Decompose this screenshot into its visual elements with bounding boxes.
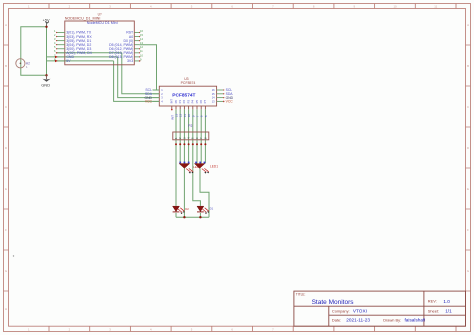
svg-text:B: B (5, 64, 7, 68)
U3 left pin names (144, 88, 152, 103)
svg-text:G: G (467, 269, 469, 273)
svg-text:H: H (5, 307, 7, 311)
NodeMCU GND/5V pin junction arrows (55, 56, 58, 59)
wire RGB LED2 cathode jog right down to rail (200, 168, 209, 217)
frame ticks bottom (49, 326, 456, 331)
svg-text:P7: P7 (203, 100, 207, 104)
svg-text:C: C (5, 105, 7, 109)
svg-text:VCC: VCC (145, 100, 153, 104)
svg-text:G: G (5, 269, 7, 273)
U3 INT pin tip dot (171, 109, 173, 111)
wire vertical bus +5V junction down to GND junction (46, 27, 48, 76)
svg-text:A: A (5, 23, 7, 27)
svg-text:PCF8574T: PCF8574T (172, 93, 195, 99)
wire drop to U3 VCC (114, 61, 160, 102)
svg-text:REV:: REV: (428, 299, 437, 304)
MCU module U? NodeMCU D1 Mini (65, 12, 135, 65)
P2 pin marks inside (rotated numbers) (174, 137, 207, 139)
NodeMCU right pin numbers 9-16 (140, 29, 143, 61)
svg-text:P2: P2 (188, 124, 192, 128)
wire drop to U3 GND (118, 57, 160, 98)
wires (green nets) (21, 23, 209, 218)
wire NodeMCU D5 to U3 SCL (139, 45, 156, 90)
wire +5V flag stub down to junction (46, 23, 48, 27)
U3 left pin numbers (161, 88, 163, 103)
NodeMCU pin tip dots (56, 32, 141, 62)
RGB LED1 (upper right) (194, 162, 218, 174)
svg-text:NodeMCU D1 Mini: NodeMCU D1 Mini (87, 21, 118, 25)
junction rail left (183, 216, 185, 218)
svg-text:VTOXI: VTOXI (353, 309, 367, 314)
U3 left pin stubs (153, 90, 160, 101)
wire U3 P4 jog down to lower LED D1 (193, 109, 201, 206)
svg-text:E: E (5, 187, 7, 191)
LED D2 (lower left) (173, 206, 190, 214)
wire NodeMCU GND pin row from bus across symbol to SDA drop (47, 56, 118, 58)
svg-text:LED1: LED1 (210, 165, 218, 169)
NodeMCU left pin names (66, 31, 92, 63)
junction at +5V corner (45, 26, 47, 28)
svg-text:GND: GND (41, 82, 50, 87)
svg-text:1.0: 1.0 (443, 299, 450, 304)
connector H2 (16, 59, 30, 69)
svg-text:5: 5 (204, 115, 208, 117)
svg-text:D: D (5, 146, 7, 150)
svg-text:3V3: 3V3 (127, 59, 133, 63)
svg-text:Sheet:: Sheet: (428, 308, 439, 313)
wire RGB LED1 cathode down to rail (183, 168, 185, 217)
junction at GND corner (45, 74, 47, 76)
svg-text:Date:: Date: (332, 317, 341, 322)
RGB LED (upper left) (179, 162, 201, 174)
U3 right pin stubs (217, 90, 224, 101)
ground (41, 75, 50, 87)
wire U3 P7 to RGB LED2 (204, 109, 206, 163)
IC U3 PCF8574 (159, 77, 216, 106)
wire U3 P3 to RGB LED (188, 109, 190, 163)
frame ticks left (4, 45, 9, 291)
U3 bottom pin names inside (rotated) (170, 99, 208, 104)
wire U3 P2 to RGB LED (183, 109, 185, 163)
svg-text:A: A (467, 23, 469, 27)
U3 bottom pin numbers below (rotated) (170, 113, 208, 120)
svg-text:+5V: +5V (43, 17, 50, 22)
wire NodeMCU D4 pin row across symbol to SDA drop (57, 52, 122, 54)
svg-text:B: B (467, 64, 469, 68)
frame ticks top (49, 4, 456, 9)
wire U3 P1 to RGB LED (179, 109, 181, 163)
U3 right pin numbers (212, 88, 215, 103)
svg-text:Drawn By:: Drawn By: (383, 317, 401, 322)
svg-text:10: 10 (393, 5, 397, 9)
wire U3 P6 to RGB LED2 (200, 109, 202, 163)
svg-text:faisalshafi: faisalshafi (405, 318, 426, 323)
svg-text:F: F (5, 228, 7, 232)
svg-text:E: E (467, 187, 469, 191)
svg-text:D: D (467, 146, 469, 150)
NodeMCU right pin stubs (135, 33, 140, 61)
power flag +5V (43, 17, 50, 27)
LED D1 (lower right) (197, 206, 214, 214)
wire junction left down through H2 and right to GND junction (21, 27, 47, 76)
svg-text:2021-11-23: 2021-11-23 (346, 318, 370, 323)
NodeMCU right pin names (109, 31, 134, 63)
wire NodeMCU 5V pin row from bus across symbol to VCC drop (47, 60, 114, 62)
wire U3 SCL stub (153, 89, 160, 91)
U3 right pin names (226, 88, 234, 103)
wire drop to U3 SDA (122, 53, 160, 94)
P2 bottom pin dots (175, 143, 206, 145)
wire lower LED D2 cathode stub (175, 213, 177, 217)
svg-text:C: C (467, 105, 469, 109)
svg-text:5V: 5V (66, 59, 71, 63)
U3 bottom pin stubs (172, 106, 206, 109)
svg-text:1/1: 1/1 (445, 309, 452, 314)
svg-text:TITLE:: TITLE: (296, 293, 306, 297)
svg-text:PCF8574: PCF8574 (181, 81, 196, 85)
NodeMCU left pin numbers 1-8 (54, 29, 56, 61)
svg-text:NODEMCU_D1_MINI: NODEMCU_D1_MINI (65, 16, 101, 20)
wire U3 P0 down to lower LED D2 (175, 109, 177, 206)
wire lower LED D1 cathode stub (199, 213, 201, 217)
svg-text:Company:: Company: (332, 308, 350, 313)
frame ticks right (466, 45, 471, 291)
wire U3 P5 to RGB LED2 (196, 109, 198, 163)
svg-text:11: 11 (434, 5, 437, 9)
title block (294, 291, 466, 326)
junction rail right (199, 216, 201, 218)
svg-text:D1: D1 (210, 206, 214, 210)
U3 right pin tip dots (223, 89, 225, 102)
wire common cathode rail (176, 216, 209, 218)
NodeMCU left pin stubs (57, 33, 65, 61)
svg-text:F: F (467, 228, 469, 232)
svg-text:D2: D2 (185, 207, 189, 211)
header P2 (173, 124, 209, 140)
svg-text:VCC: VCC (226, 100, 234, 104)
svg-text:State Monitors: State Monitors (312, 299, 355, 306)
canvas origin mark (13, 255, 14, 256)
